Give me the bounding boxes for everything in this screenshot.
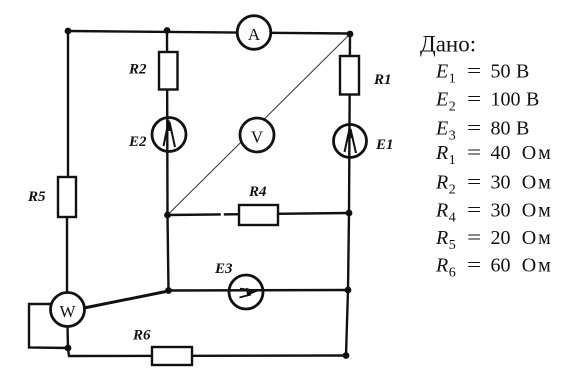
node top-left — [65, 28, 72, 35]
svg-text:W: W — [59, 302, 76, 321]
given E3 value — [435, 117, 529, 143]
svg-text:E2: E2 — [435, 88, 456, 114]
wire right vertical — [346, 34, 350, 356]
emf source E3 — [229, 275, 263, 309]
svg-text:=: = — [467, 142, 481, 164]
svg-text:R4: R4 — [248, 184, 267, 200]
svg-text:20Ом: 20Ом — [491, 227, 553, 249]
wire left vertical — [67, 31, 68, 293]
given R5 value — [435, 227, 553, 253]
svg-text:A: A — [248, 25, 261, 44]
node E3 right — [345, 287, 352, 294]
svg-text:R1: R1 — [435, 142, 456, 168]
given E2 value — [435, 88, 539, 114]
given R6 value — [435, 255, 553, 281]
svg-text:E3: E3 — [435, 117, 456, 143]
svg-text:=: = — [467, 117, 481, 139]
wattmeter W — [51, 293, 85, 327]
svg-text:=: = — [467, 200, 481, 222]
svg-text:E1: E1 — [375, 137, 394, 153]
svg-text:60Ом: 60Ом — [491, 255, 553, 277]
wire center vertical — [167, 31, 169, 291]
resistor R2 — [159, 52, 178, 90]
svg-text:R6: R6 — [132, 328, 151, 344]
wire middle horizontal R4 — [168, 213, 350, 215]
svg-text:50В: 50В — [491, 61, 530, 83]
wire gap artifact left of R4 — [221, 211, 224, 218]
svg-text:R2: R2 — [128, 62, 147, 78]
svg-text:R6: R6 — [435, 255, 456, 281]
resistor R6 — [152, 347, 192, 365]
wire E3 horizontal — [169, 289, 349, 292]
node bottom-left — [65, 345, 72, 352]
svg-text:=: = — [467, 88, 481, 110]
svg-text:100В: 100В — [491, 88, 540, 110]
resistor R5 — [58, 177, 76, 217]
node R4 right — [346, 210, 353, 217]
node R2 top — [164, 27, 171, 34]
given R2 value — [435, 172, 553, 198]
wire thick diagonal wattmeter — [84, 291, 169, 308]
node E3 left — [165, 287, 172, 294]
node bottom-right — [343, 352, 350, 359]
svg-text:40Ом: 40Ом — [491, 142, 553, 164]
svg-text:E1: E1 — [435, 61, 456, 87]
resistor R4 — [239, 205, 278, 225]
given R4 value — [435, 200, 553, 226]
resistor R1 — [340, 56, 359, 95]
svg-text:=: = — [467, 255, 481, 277]
svg-text:=: = — [467, 227, 481, 249]
svg-text:R2: R2 — [435, 172, 456, 198]
svg-text:80В: 80В — [491, 117, 530, 139]
svg-text:R5: R5 — [435, 227, 456, 253]
ammeter A — [237, 16, 271, 50]
wire wattmeter left bracket — [29, 304, 68, 348]
svg-text:Дано:: Дано: — [420, 32, 476, 57]
wire wattmeter bottom — [66, 326, 69, 348]
given E1 value — [435, 61, 529, 87]
wire top horizontal — [68, 31, 350, 34]
svg-text:30Ом: 30Ом — [491, 172, 553, 194]
svg-text:R1: R1 — [373, 72, 392, 88]
svg-text:30Ом: 30Ом — [491, 200, 553, 222]
svg-text:E2: E2 — [128, 134, 147, 150]
svg-text:R4: R4 — [435, 200, 456, 226]
emf source E1 — [334, 125, 367, 158]
given R1 value — [435, 142, 553, 168]
wire diagonal thin to voltmeter — [168, 34, 351, 215]
node top-right — [347, 31, 354, 38]
voltmeter V — [240, 118, 274, 152]
svg-text:E3: E3 — [214, 261, 233, 277]
svg-text:=: = — [467, 61, 481, 83]
node mid center — [164, 212, 171, 219]
svg-text:R5: R5 — [27, 189, 46, 205]
wire bottom horizontal — [68, 348, 346, 356]
svg-text:V: V — [251, 128, 264, 147]
emf source E2 — [152, 118, 186, 152]
svg-text:=: = — [467, 172, 481, 194]
